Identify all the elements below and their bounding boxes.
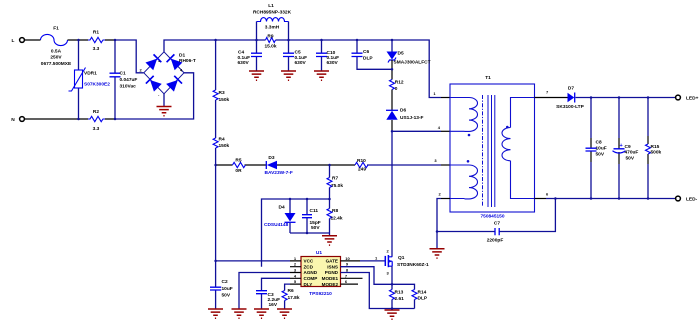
svg-text:D4: D4: [279, 204, 285, 210]
svg-text:T1: T1: [485, 75, 491, 81]
resistor R12: [390, 80, 404, 93]
resistor R6: [282, 288, 300, 301]
node pin4 junction: [391, 130, 394, 133]
diode D7: [556, 85, 584, 110]
svg-text:150k: 150k: [219, 143, 230, 149]
svg-text:500k: 500k: [651, 149, 662, 155]
ground R8: [322, 236, 337, 245]
node R4-R5 junction: [214, 164, 217, 167]
svg-text:F1: F1: [53, 26, 59, 32]
svg-text:3.3: 3.3: [93, 46, 100, 52]
wire C6 branch: [357, 40, 392, 69]
transistor Q1: [375, 249, 429, 276]
node C9 bottom junction: [618, 197, 621, 200]
wire C10 branch: [321, 40, 323, 71]
wire C8 branch: [590, 98, 592, 199]
svg-text:R14: R14: [418, 290, 427, 296]
terminal N: [11, 117, 24, 123]
wire PGND pin8: [341, 273, 415, 309]
svg-text:U1: U1: [316, 250, 322, 256]
svg-text:COMP: COMP: [304, 276, 318, 281]
diode D4: [264, 204, 296, 227]
svg-text:0R: 0R: [235, 168, 242, 174]
wire COMP pin4: [262, 278, 291, 308]
svg-text:ISNS: ISNS: [327, 264, 338, 269]
node C1 top junction: [114, 39, 117, 42]
svg-text:D5: D5: [398, 51, 404, 57]
T1 primary winding top: [450, 98, 465, 132]
svg-text:C7: C7: [494, 220, 500, 226]
svg-text:D7: D7: [568, 85, 574, 91]
svg-text:VCC: VCC: [304, 259, 314, 264]
svg-text:PGND: PGND: [325, 270, 339, 275]
wire DC+ rail: [164, 40, 441, 98]
node fuse-VDR1 junction: [77, 39, 80, 42]
wire drain vertical: [391, 131, 393, 256]
resistor R8: [327, 208, 343, 222]
IC U1 TPS92210: [301, 250, 341, 297]
svg-text:MODE1: MODE1: [322, 276, 339, 281]
wire D5 branch: [391, 40, 393, 52]
resistor R13: [390, 290, 405, 302]
svg-text:R7: R7: [332, 176, 338, 182]
svg-text:R6: R6: [288, 288, 294, 294]
wire bridge minus stub: [163, 94, 165, 106]
svg-text:LED+: LED+: [686, 95, 699, 101]
resistor R2: [88, 109, 105, 132]
node C8 bottom junction: [590, 197, 593, 200]
node VCC-C2 junction: [214, 260, 217, 263]
fuse F1: [41, 26, 72, 68]
capacitor C2: [210, 261, 233, 309]
ground C2: [208, 309, 223, 318]
resistor R7: [327, 176, 343, 189]
U1 pin numbers: [294, 256, 351, 284]
svg-text:C9: C9: [625, 144, 631, 150]
svg-text:R4: R4: [219, 136, 225, 142]
svg-text:R15: R15: [651, 144, 660, 150]
wire C7 line: [437, 199, 555, 232]
svg-text:SK3100-LTP: SK3100-LTP: [556, 104, 584, 110]
svg-text:C8: C8: [596, 140, 602, 146]
ground Q1 source: [385, 310, 400, 319]
svg-text:N: N: [11, 117, 15, 123]
capacitor C4: [238, 50, 263, 66]
wire C9 branch: [618, 98, 620, 199]
svg-text:DLY: DLY: [304, 282, 313, 287]
svg-text:50V: 50V: [626, 155, 635, 161]
wire clamp bottom: [290, 232, 330, 234]
node R3 rail junction: [214, 39, 217, 42]
node R13 bottom junction: [391, 307, 394, 310]
svg-text:TPS92210: TPS92210: [309, 291, 332, 297]
svg-text:GATE: GATE: [326, 259, 338, 264]
resistor R10: [355, 158, 368, 173]
ground C4: [249, 71, 264, 80]
wire GATE: [341, 260, 361, 262]
node C6 rail junction: [356, 39, 359, 42]
wire C11 branch: [306, 199, 308, 233]
wire LED- rail: [535, 198, 547, 200]
svg-text:L1: L1: [268, 3, 274, 9]
svg-text:R13: R13: [395, 290, 404, 296]
svg-text:C5: C5: [295, 50, 301, 56]
T1 aux winding bottom: [450, 165, 465, 199]
svg-text:SMAJ300ALFCT: SMAJ300ALFCT: [394, 59, 431, 65]
ground C10: [314, 71, 329, 80]
wire DLY pin5: [285, 284, 290, 308]
svg-text:D3: D3: [268, 155, 274, 161]
terminal LED+: [676, 95, 699, 101]
diode D3: [265, 155, 293, 176]
svg-text:10uF: 10uF: [596, 146, 607, 152]
svg-text:50V: 50V: [596, 152, 605, 158]
svg-text:L: L: [12, 38, 15, 44]
svg-text:R10: R10: [357, 158, 366, 164]
node R7-R8 junction: [328, 198, 331, 201]
node R7 top junction: [328, 164, 331, 167]
svg-text:RCH895NP-332K: RCH895NP-332K: [253, 10, 292, 16]
wire N rail: [25, 118, 116, 120]
svg-text:RH06-T: RH06-T: [179, 58, 196, 64]
wire C4 branch: [256, 40, 258, 71]
U1 pin stubs left: [290, 261, 301, 284]
svg-text:3.3: 3.3: [93, 126, 100, 132]
resistor R4: [213, 136, 229, 148]
svg-text:0.5A: 0.5A: [51, 48, 62, 54]
resistor R9: [264, 33, 276, 49]
node D5 rail junction: [391, 39, 394, 42]
node Q1 source junction: [391, 283, 394, 286]
svg-text:R12: R12: [395, 80, 404, 86]
wire T1 pin4: [392, 130, 441, 132]
svg-text:C1: C1: [120, 70, 126, 76]
inductor L1: [253, 3, 292, 40]
svg-text:15.0k: 15.0k: [264, 44, 276, 50]
svg-text:D6: D6: [400, 107, 406, 113]
svg-text:2200pF: 2200pF: [487, 237, 504, 243]
T1 secondary winding: [511, 98, 535, 199]
U1 pin stubs right: [341, 278, 363, 284]
terminal LED-: [676, 196, 698, 202]
svg-text:0677.500MXE: 0677.500MXE: [41, 61, 72, 67]
svg-text:C11: C11: [310, 208, 319, 214]
svg-text:0: 0: [395, 86, 398, 92]
resistor R15: [646, 144, 662, 155]
svg-text:150k: 150k: [219, 97, 230, 103]
wire VDR1 branch: [78, 40, 80, 119]
wire L input: [25, 39, 116, 41]
svg-text:ZCD: ZCD: [304, 264, 314, 269]
svg-text:470uF: 470uF: [625, 149, 639, 155]
svg-text:310Vac: 310Vac: [120, 83, 137, 89]
wire R7 R8 chain: [329, 165, 331, 235]
wire T1 pin2 to ground: [441, 198, 450, 200]
resistor R3: [213, 90, 229, 103]
svg-text:R8: R8: [332, 208, 338, 214]
node R15 bottom junction: [647, 197, 650, 200]
svg-text:630V: 630V: [327, 60, 339, 66]
wire C1 branch: [114, 40, 116, 119]
capacitor C10: [316, 50, 339, 66]
wire D4 branch: [289, 199, 291, 233]
svg-text:10: 10: [345, 256, 350, 261]
wire R14 branch: [392, 284, 415, 308]
wire AGND pin3: [239, 273, 290, 309]
node VDR1 bottom junction: [77, 118, 80, 121]
wire D5 to D6: [391, 60, 393, 131]
svg-text:0.047uF: 0.047uF: [120, 77, 138, 83]
varistor VDR1: [69, 68, 111, 92]
svg-text:630V: 630V: [295, 60, 307, 66]
svg-text:D1: D1: [179, 53, 185, 59]
node ZCD-D4 junction: [289, 198, 292, 201]
svg-text:LED-: LED-: [686, 196, 698, 202]
svg-text:R2: R2: [93, 109, 99, 115]
capacitor C1: [110, 70, 138, 89]
terminal L: [12, 38, 25, 44]
resistor R5: [233, 157, 246, 174]
svg-text:DLP: DLP: [363, 56, 373, 62]
node L1 left rail junction: [255, 39, 258, 42]
wire T1 pin7 to D7: [535, 97, 568, 99]
svg-text:DLP: DLP: [418, 295, 428, 301]
T1 core: [482, 95, 484, 207]
capacitor C6: [352, 49, 374, 61]
capacitor C8: [586, 140, 607, 158]
svg-text:C6: C6: [363, 49, 369, 55]
svg-text:R3: R3: [219, 90, 225, 96]
ground R6: [277, 309, 292, 318]
svg-text:R9: R9: [267, 33, 273, 39]
node LED- branch junction: [554, 197, 557, 200]
svg-text:C2: C2: [222, 279, 228, 285]
resistor R14: [412, 290, 428, 302]
svg-text:BAV23W-7-F: BAV23W-7-F: [265, 170, 293, 176]
diode D5 TVS: [387, 51, 431, 66]
svg-text:R5: R5: [235, 157, 241, 163]
node C8 top junction: [590, 96, 593, 99]
capacitor C9: [613, 143, 639, 161]
svg-text:50V: 50V: [311, 225, 320, 231]
svg-text:+: +: [620, 143, 623, 149]
ground C5: [281, 71, 296, 80]
wire source to R13: [391, 266, 393, 308]
svg-text:17.8k: 17.8k: [288, 295, 300, 301]
node C1 bottom junction: [114, 118, 117, 121]
svg-text:50V: 50V: [222, 292, 231, 298]
node R15 top junction: [647, 96, 650, 99]
svg-text:VDR1: VDR1: [84, 71, 97, 77]
ground bridge: [157, 107, 172, 116]
wire R3 R4 chain: [215, 40, 217, 261]
node L1 right rail junction: [287, 39, 290, 42]
svg-text:CDSU4148: CDSU4148: [264, 222, 289, 228]
node C7 left junction: [436, 230, 439, 233]
resistor R1: [88, 30, 105, 53]
wire N rail to bridge: [115, 73, 194, 119]
svg-text:2.61: 2.61: [395, 296, 405, 302]
diode D6: [386, 107, 424, 121]
wire ZCD sense line: [216, 164, 355, 166]
svg-text:AGND: AGND: [304, 270, 318, 275]
node C6-D5 bottom junction: [391, 68, 394, 71]
svg-text:C4: C4: [238, 50, 244, 56]
ground T1 pin2: [430, 249, 445, 258]
svg-text:12.4k: 12.4k: [331, 216, 343, 222]
svg-text:750845150: 750845150: [480, 214, 504, 220]
ground C3: [254, 309, 269, 318]
capacitor C5: [283, 50, 307, 66]
capacitor C3: [256, 291, 280, 308]
svg-text:Q1: Q1: [398, 255, 405, 261]
svg-text:250V: 250V: [50, 55, 62, 61]
wire ISNS pin9: [341, 267, 393, 285]
svg-text:16V: 16V: [269, 302, 278, 308]
svg-text:10uF: 10uF: [222, 286, 233, 292]
transformer T1: [433, 75, 549, 219]
wire to T1 pin3: [367, 164, 441, 166]
wire ZCD top line: [262, 199, 330, 267]
svg-text:R1: R1: [93, 30, 99, 36]
svg-text:630V: 630V: [238, 60, 250, 66]
node C9 top junction: [618, 96, 621, 99]
wire LED+ rail: [576, 97, 676, 99]
bridge rectifier D1: [140, 52, 196, 97]
ground AGND: [232, 309, 247, 318]
svg-text:75.0k: 75.0k: [331, 183, 343, 189]
svg-text:S07K300E2: S07K300E2: [84, 82, 110, 88]
node C11 bottom junction: [306, 232, 309, 235]
capacitor C7: [487, 220, 504, 243]
svg-text:MODE2: MODE2: [322, 282, 339, 287]
wire R15 branch: [647, 98, 649, 199]
wire VCC pin1: [216, 260, 290, 262]
svg-text:STD3NK60Z-1: STD3NK60Z-1: [397, 262, 429, 268]
svg-text:3.3mH: 3.3mH: [265, 24, 280, 30]
svg-text:249: 249: [358, 167, 366, 173]
capacitor C11: [302, 208, 321, 231]
node C10 rail junction: [320, 39, 323, 42]
svg-text:US1J-13-F: US1J-13-F: [400, 115, 424, 121]
node ZCD-C11 junction: [306, 198, 309, 201]
wire C5 branch: [288, 40, 290, 71]
